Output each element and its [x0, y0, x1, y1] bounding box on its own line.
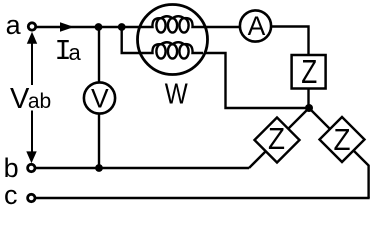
wire right diamond to line c: [351, 148, 369, 198]
left diamond impedance Z: [255, 118, 300, 163]
wire voltmeter to line b: [98, 98, 100, 168]
svg-text:c: c: [4, 180, 18, 210]
terminal a: [28, 23, 35, 30]
wattmeter bottom coil leads and humps: [141, 42, 203, 53]
svg-text:a: a: [6, 10, 22, 40]
wire a to wattmeter: [37, 26, 142, 28]
wattmeter top coil leads and humps: [139, 16, 206, 27]
terminal c: [28, 194, 35, 201]
line c: [36, 197, 370, 199]
wattmeter bottom coil loop 3: [179, 44, 188, 58]
wire node to left diamond: [286, 108, 309, 131]
Vab arrow head top: [27, 32, 37, 44]
impedance Z box: [292, 55, 326, 89]
svg-text:Z: Z: [301, 53, 317, 90]
svg-text:Z: Z: [268, 121, 285, 156]
current arrow on wire a: [60, 22, 74, 32]
junction node dot: [305, 104, 313, 112]
wire wattmeter bottom coil to node: [202, 53, 309, 108]
voltmeter V circle: [84, 82, 115, 113]
wattmeter top coil loop 2: [168, 18, 177, 32]
wire wattmeter to ammeter: [204, 26, 242, 28]
svg-text:b: b: [4, 153, 19, 183]
wattmeter W circle: [138, 5, 208, 75]
wire left diamond to line b: [249, 150, 268, 169]
wire junction2 to wattmeter bottom coil: [122, 27, 143, 53]
wattmeter bottom coil loop 2: [168, 44, 177, 58]
wire Z box to node: [307, 86, 309, 108]
Vab arrow shaft bottom: [31, 111, 33, 155]
wattmeter bottom coil loop 1: [156, 44, 165, 58]
Vab arrow head bottom: [26, 151, 36, 163]
svg-text:V: V: [91, 84, 109, 114]
Vab arrow shaft top: [31, 41, 33, 85]
svg-text:a: a: [69, 40, 82, 65]
wire ammeter to Z box corner: [270, 27, 309, 58]
right diamond impedance Z: [320, 117, 365, 162]
junction dot on line b: [95, 164, 103, 172]
svg-text:W: W: [165, 79, 189, 111]
svg-text:A: A: [248, 11, 266, 41]
wire node to right diamond: [309, 108, 332, 131]
ammeter A circle: [240, 10, 271, 41]
line b: [36, 167, 249, 169]
wattmeter top coil loop 1: [156, 18, 165, 32]
wire junction1 to voltmeter: [98, 27, 100, 98]
wattmeter top coil loop 3: [179, 18, 188, 32]
svg-text:Z: Z: [334, 122, 351, 157]
junction dot 2: [118, 23, 126, 31]
junction dot 1: [95, 23, 103, 31]
terminal b: [28, 164, 35, 171]
